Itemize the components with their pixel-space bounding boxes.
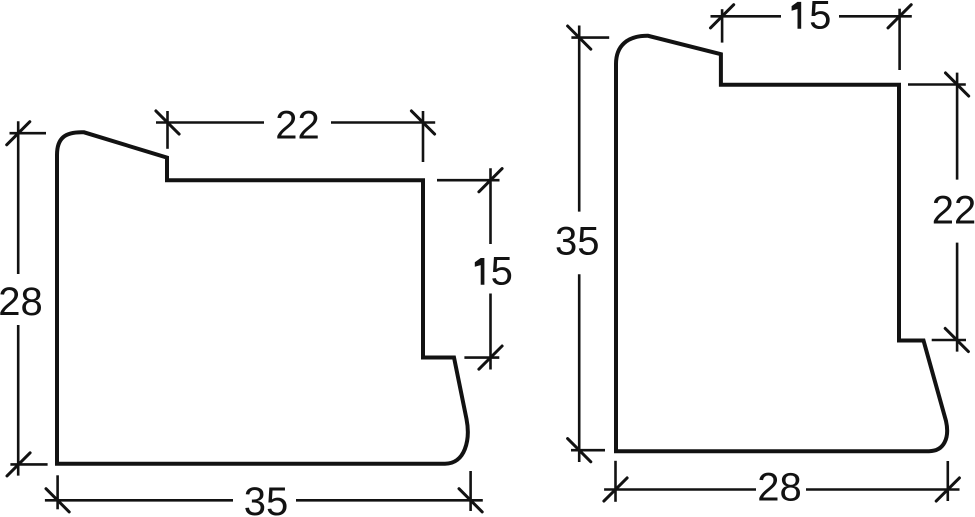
dim 22 extension right [422, 111, 425, 162]
dim 15b tick left [711, 5, 734, 28]
svg-text:5: 5 [491, 250, 513, 294]
dim 35 tick left [46, 489, 69, 512]
left profile outline [57, 132, 468, 463]
dim 22b tick top [946, 73, 969, 96]
dim 35b line lower [578, 274, 581, 462]
dim 15 extension bottom [464, 356, 499, 359]
svg-text:35: 35 [244, 480, 289, 517]
dim 35 extension right [469, 471, 472, 511]
dim 22b line upper [956, 73, 959, 180]
svg-text:35: 35 [555, 220, 600, 264]
dim 22 line left [156, 121, 264, 124]
dim 28 tick bottom [7, 453, 30, 476]
svg-text:28: 28 [757, 465, 802, 509]
dim 15 tick bottom [479, 346, 502, 369]
dim 15 extension top [437, 179, 500, 182]
svg-text:28: 28 [0, 280, 43, 324]
dim 15b tick right [888, 5, 911, 28]
dim 28 extension bottom [10, 463, 47, 466]
right profile outline [616, 36, 947, 451]
dim 22b extension top [908, 83, 966, 86]
dim 15 line lower [489, 294, 492, 370]
dim 35 line right [296, 499, 483, 502]
dim 22b line lower [956, 243, 959, 352]
dim 22 tick right [411, 111, 434, 134]
dim 28 tick top [7, 122, 30, 145]
dim 28b line right [806, 488, 960, 491]
dim 35 tick right [459, 489, 482, 512]
dim 28b extension left [614, 461, 617, 502]
dim 35b extension bottom [571, 449, 605, 452]
dim 15b extension right [898, 9, 901, 70]
dim 15 tick top [479, 169, 502, 192]
dim 22b tick bottom [945, 328, 968, 351]
svg-text:5: 5 [809, 0, 831, 38]
dim 28 line upper [17, 121, 20, 274]
dim 15 line upper [489, 168, 492, 244]
svg-text:22: 22 [932, 188, 975, 232]
dim 35b extension top [571, 36, 609, 39]
dim 22b extension bottom [932, 339, 966, 342]
dim 28 extension top [10, 132, 47, 135]
dim 35b tick bottom [568, 439, 591, 462]
dim 28b tick left [604, 478, 627, 501]
dim 28b line left [604, 488, 756, 491]
dim 28b extension right [946, 461, 949, 501]
dim 35 extension left [56, 475, 59, 509]
dim 15b extension left [721, 9, 724, 42]
dim 28 line lower [17, 325, 20, 476]
dim 28b tick right [936, 478, 959, 501]
dim 35 line left [45, 499, 233, 502]
svg-text:22: 22 [275, 103, 320, 147]
label 15 right figure digit 1 [792, 2, 802, 29]
dim 22 extension left [166, 111, 169, 149]
dim 35b tick top [568, 26, 591, 49]
dim 35b line upper [578, 26, 581, 212]
dim 22 line right [331, 121, 435, 124]
label 15 left figure digit 1 [475, 258, 485, 285]
dim 15b line right [839, 15, 912, 18]
dim 22 tick left [156, 111, 179, 134]
dim 15b line left [711, 15, 782, 18]
